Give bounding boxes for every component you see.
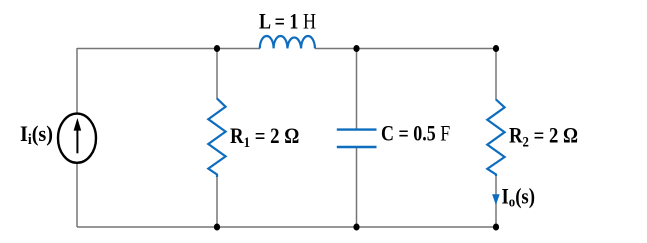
svg-text:Ii(s): Ii(s) [20,121,53,148]
wire left vertical lower [76,164,78,228]
junction dot bottom node 3 [493,224,499,231]
current source arrow [74,118,82,153]
wire left vertical upper [76,48,78,113]
junction dot top node 2 [353,45,359,52]
svg-text:R2 = 2 Ω: R2 = 2 Ω [509,122,578,150]
capacitor C plates [337,130,377,147]
svg-text:L = 1 H: L = 1 H [259,8,316,33]
wire top-right horizontal [315,48,496,50]
junction dot top node 3 [493,45,499,52]
resistor R2 zigzag [487,100,504,177]
wire R1 branch upper [216,49,218,100]
wire R2 branch upper [495,49,497,101]
wire bottom horizontal [77,226,496,228]
wire R2 branch lower [495,176,497,228]
current source I_i(s) circle [58,114,96,163]
junction dot bottom node 2 [353,224,359,231]
svg-text:R1 = 2 Ω: R1 = 2 Ω [230,123,299,151]
wire C branch lower [356,148,358,228]
svg-text:Io(s): Io(s) [502,184,536,211]
junction dot bottom node 1 [214,224,220,231]
wire top-left horizontal [77,48,260,50]
junction dot top node 1 [214,45,220,52]
inductor L1 coil [260,36,315,48]
wire C branch upper [356,49,358,130]
resistor R1 zigzag [208,99,225,178]
output current arrow I_o(s) [492,194,500,205]
wire R1 branch lower [216,176,218,227]
svg-text:C = 0.5 F: C = 0.5 F [381,121,450,146]
